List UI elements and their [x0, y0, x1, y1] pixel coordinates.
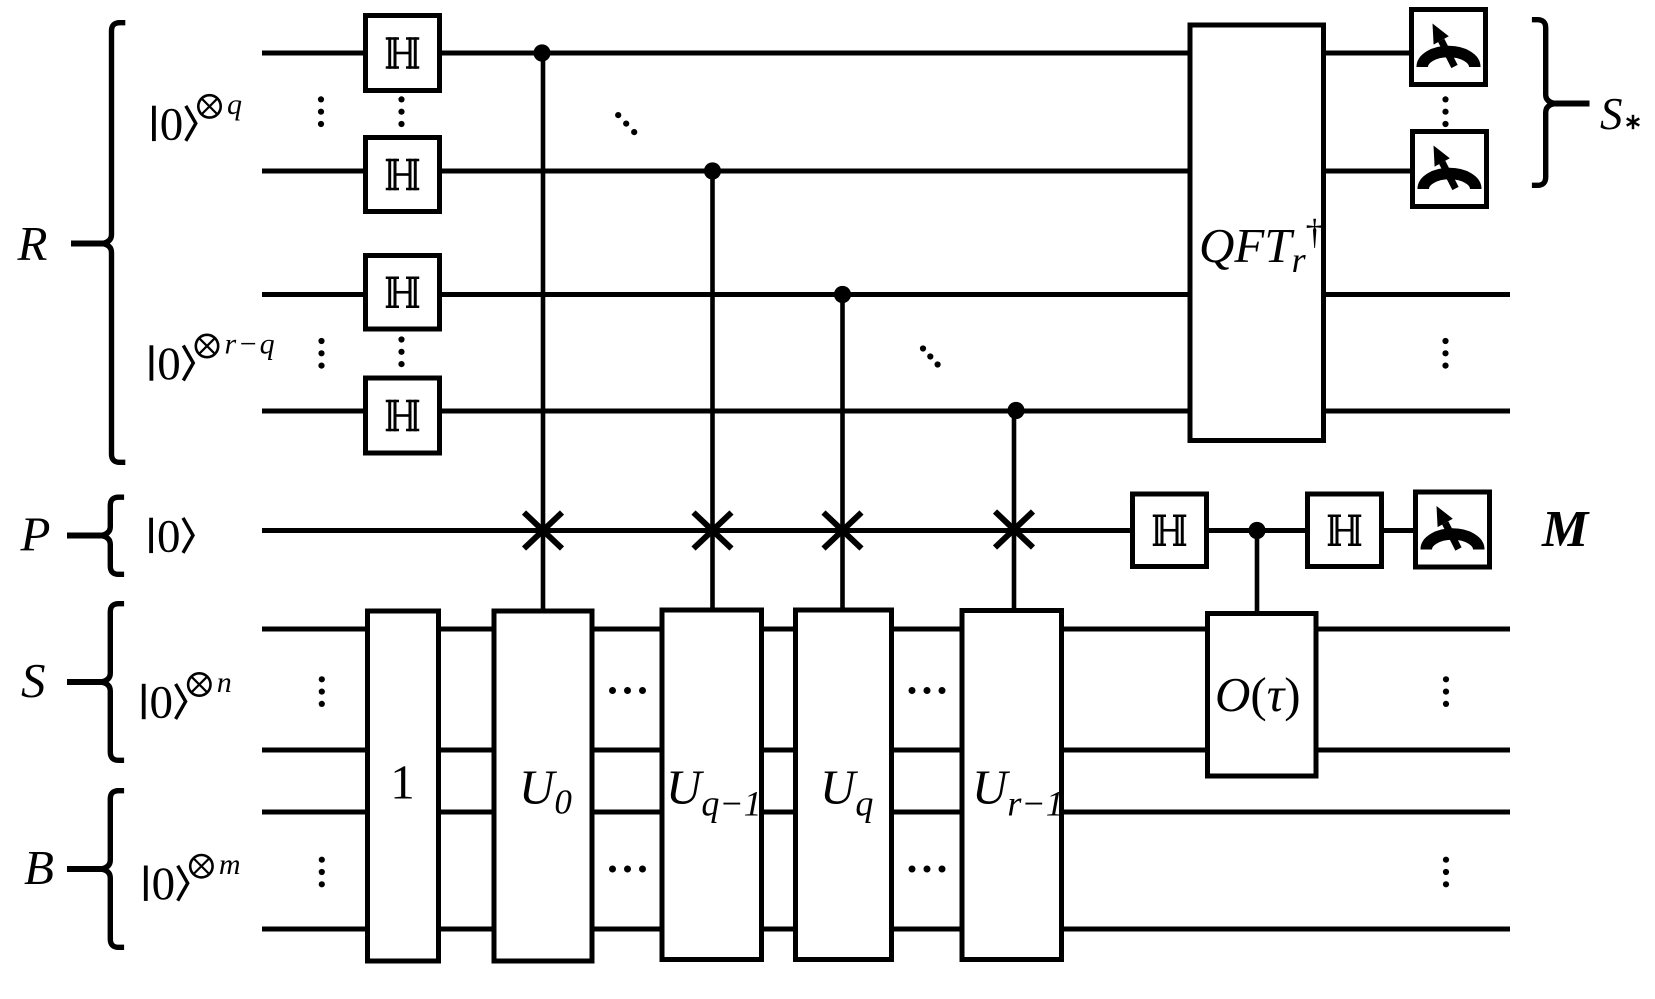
brace S — [101, 604, 124, 761]
svg-text:O(τ): O(τ) — [1215, 667, 1301, 722]
H glyph H4 — [386, 400, 420, 432]
wire B1 — [262, 810, 1510, 815]
H gate H6 — [1308, 494, 1382, 567]
brace R — [102, 23, 125, 463]
vertical dots left B — [319, 857, 325, 888]
H glyph H1 — [386, 37, 420, 69]
wire R1 — [262, 51, 1409, 56]
gate box 1 (identity) — [368, 611, 439, 961]
vertical dots left R bottom — [318, 338, 324, 369]
svg-text:1: 1 — [390, 755, 415, 810]
control line V4 — [1012, 411, 1017, 614]
wire B2 — [262, 927, 1510, 932]
swap cross X4 — [995, 512, 1033, 548]
control line V5 O-tau control — [1255, 531, 1260, 616]
vertical dots right R bottom — [1442, 338, 1448, 369]
H glyph H6 — [1328, 515, 1362, 547]
gate box Uq — [796, 610, 892, 960]
H glyph H2 — [386, 159, 420, 191]
control line V3 — [840, 295, 845, 613]
ket label ket P |0> — [149, 510, 193, 562]
brace tick S — [67, 679, 102, 685]
wire P — [262, 528, 1414, 533]
control line V2 — [710, 171, 715, 612]
ket label ket R bottom |0>r-q — [150, 328, 277, 390]
svg-text:M: M — [1541, 501, 1590, 558]
brace tick R — [71, 241, 104, 247]
svg-text:S: S — [21, 653, 46, 708]
control dot R2 — [704, 162, 721, 179]
brace tick s_star — [1554, 101, 1590, 107]
vertical dots meter col — [1442, 96, 1448, 127]
svg-text:r−q: r−q — [225, 328, 277, 361]
control line V1 — [541, 53, 546, 612]
svg-text:n: n — [217, 666, 234, 699]
H gate H1 — [366, 16, 440, 91]
vertical dots left S — [319, 676, 325, 707]
gate box U0 — [494, 611, 592, 961]
control dot P — [1248, 522, 1265, 539]
gate box Ur-1 — [962, 611, 1062, 960]
svg-text:0: 0 — [160, 98, 184, 150]
wire R3 — [262, 292, 1510, 297]
horizontal dots gap1 S — [609, 687, 646, 694]
brace B — [101, 791, 124, 948]
swap cross X1 — [524, 513, 562, 549]
H gate H4 — [366, 378, 440, 453]
measurement meter M2 — [1413, 132, 1487, 207]
asterisk subscript — [1627, 115, 1640, 129]
H gate H5 — [1133, 494, 1207, 567]
svg-text:q: q — [227, 88, 244, 121]
control dot R3 — [834, 286, 851, 303]
ket label ket R top |0>q — [152, 88, 244, 150]
swap cross X3 — [824, 513, 862, 549]
gate box Uq-1 — [662, 610, 762, 960]
diag dots bottom — [920, 345, 941, 367]
vertical dots right B — [1443, 857, 1449, 888]
measurement meter M3 — [1416, 492, 1490, 567]
svg-text:m: m — [219, 848, 242, 881]
horizontal dots gap1 B — [609, 866, 646, 873]
wire R4 — [262, 409, 1510, 414]
swap cross X2 — [694, 513, 732, 549]
brace tick B — [67, 866, 102, 872]
svg-text:0: 0 — [157, 510, 181, 562]
ket label ket B |0>m — [144, 848, 242, 910]
svg-text:B: B — [24, 840, 54, 895]
vertical dots H col R bottom — [398, 336, 404, 367]
svg-text:QFTr†: QFTr† — [1199, 212, 1324, 280]
gate box O(tau) — [1208, 614, 1317, 777]
svg-text:S: S — [1600, 89, 1623, 139]
vertical dots H col R top — [398, 96, 404, 127]
horizontal dots gap2 S — [909, 687, 946, 694]
brace s_star — [1532, 20, 1555, 186]
ket label ket S |0>n — [142, 666, 234, 728]
control dot R1 — [533, 44, 550, 61]
wire S1 — [262, 627, 1510, 632]
svg-text:0: 0 — [150, 676, 174, 728]
control dot R4 — [1007, 402, 1024, 419]
diag dots top — [615, 112, 637, 135]
svg-text:0: 0 — [152, 858, 176, 910]
vertical dots left R top — [318, 96, 324, 127]
vertical dots right S — [1443, 676, 1449, 707]
H glyph H5 — [1153, 515, 1187, 547]
svg-text:R: R — [17, 216, 48, 271]
horizontal dots gap2 B — [909, 866, 946, 873]
gate box QFT — [1190, 25, 1324, 441]
H gate H3 — [366, 256, 440, 330]
measurement meter M1 — [1412, 10, 1486, 85]
wire S2 — [262, 748, 1510, 753]
H gate H2 — [366, 138, 440, 212]
svg-text:0: 0 — [157, 338, 181, 390]
brace tick P — [67, 533, 102, 539]
wire R2 — [262, 169, 1410, 174]
brace P — [101, 497, 124, 574]
svg-text:P: P — [20, 507, 51, 562]
H glyph H3 — [386, 277, 420, 309]
